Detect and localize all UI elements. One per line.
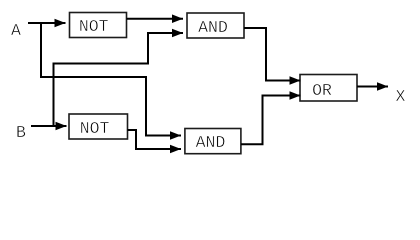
- wire AND U2 output segment: [244, 28, 266, 81]
- wire B branch vertical up: [147, 32, 149, 65]
- wire B to NOT U3 input (arrow): [31, 125, 67, 127]
- AND gate U4 box: [185, 129, 241, 154]
- node B junction vertical wire: [53, 63, 55, 128]
- AND gate U2 box: [187, 13, 244, 38]
- wire AND U4 output to OR U5 lower input (arrow): [262, 95, 301, 97]
- svg-text:A: A: [11, 21, 21, 40]
- node A junction vertical wire: [40, 22, 42, 78]
- wire A branch to AND U4 top input (arrow): [145, 135, 181, 137]
- wire B branch horizontal: [53, 63, 150, 65]
- svg-text:B: B: [16, 123, 26, 142]
- wire A to NOT U1 input (arrow): [28, 22, 66, 24]
- wire AND U4 output segment: [241, 96, 263, 145]
- svg-text:AND: AND: [198, 18, 228, 37]
- NOT gate U3 box: [69, 114, 128, 139]
- svg-text:NOT: NOT: [79, 17, 109, 36]
- wire NOT U1 output to AND U2 upper input (arrow): [127, 18, 184, 20]
- wire B branch to AND U2 lower input (arrow): [147, 32, 183, 34]
- wire A branch horizontal: [40, 76, 147, 78]
- svg-text:NOT: NOT: [80, 119, 110, 138]
- wire A branch vertical down: [145, 76, 147, 137]
- wire OR U5 output to X (arrow): [357, 86, 388, 88]
- svg-text:AND: AND: [196, 133, 226, 152]
- NOT gate U1 box: [70, 13, 127, 38]
- OR gate U5 box: [300, 75, 357, 102]
- svg-text:OR: OR: [312, 81, 332, 100]
- svg-text:X: X: [396, 87, 406, 106]
- wire NOT U3 output segment: [128, 130, 137, 149]
- wire AND U2 output to OR U5 upper input (arrow): [265, 80, 301, 82]
- wire NOT U3 output to AND U4 lower input (arrow): [135, 148, 181, 150]
